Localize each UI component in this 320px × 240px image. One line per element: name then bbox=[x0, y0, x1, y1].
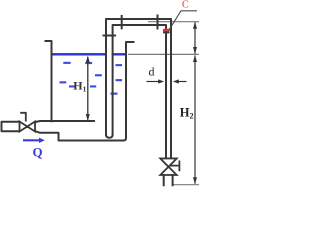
white mask of pipe bore over water bbox=[107, 53, 112, 57]
siphon pipe outer wall bbox=[106, 19, 171, 159]
extension line at water surface level bbox=[128, 53, 199, 55]
dimension H1 line bbox=[87, 57, 89, 120]
svg-text:H1: H1 bbox=[73, 78, 86, 93]
dimension d arrows bbox=[147, 81, 161, 83]
water dash 4 bbox=[95, 74, 102, 76]
water dash 7 bbox=[69, 85, 75, 87]
flange tick on top run left bbox=[121, 15, 123, 29]
dark marker under C bbox=[163, 31, 170, 33]
svg-text:H2: H2 bbox=[180, 105, 194, 120]
siphon pipe mouth U-bend bbox=[106, 135, 113, 138]
extension line at outlet level bbox=[174, 184, 200, 186]
water dash 3 bbox=[116, 64, 123, 66]
outlet valve handle bbox=[170, 161, 179, 172]
water dash 2 bbox=[85, 62, 92, 64]
tank left wall with top lip bbox=[46, 41, 52, 121]
water surface bbox=[53, 53, 126, 55]
tank right wall with top lip, floor and step to inlet bbox=[36, 42, 134, 141]
dimension line C-to-surface bbox=[194, 22, 196, 54]
flange tick on top run right bbox=[157, 15, 159, 30]
flange tick on riser bbox=[103, 35, 117, 37]
tank floor inner line (top of inlet duct) bbox=[36, 121, 95, 122]
red marker at point C bbox=[163, 29, 170, 32]
svg-text:Q: Q bbox=[33, 145, 43, 160]
water dash 1 bbox=[63, 62, 70, 64]
inlet valve V1 bbox=[20, 122, 36, 132]
flow arrow Q bbox=[23, 139, 41, 141]
water dash 8 bbox=[90, 85, 96, 87]
inlet pipe bbox=[2, 122, 20, 132]
outlet valve V2 bowtie bbox=[160, 159, 176, 176]
svg-text:C: C bbox=[182, 0, 189, 10]
dimension H2 line bbox=[194, 56, 196, 184]
water dash 9 bbox=[111, 93, 118, 95]
svg-text:d: d bbox=[149, 65, 155, 79]
leader line to C bbox=[169, 11, 197, 31]
outlet valve V2 top bar bbox=[160, 158, 176, 160]
inlet valve handle bbox=[20, 112, 26, 122]
extension line at level C bbox=[148, 21, 199, 23]
water dash 6 bbox=[116, 79, 123, 81]
water dash 5 bbox=[60, 81, 67, 83]
outlet nozzle bbox=[164, 175, 173, 185]
siphon pipe inner wall bbox=[113, 25, 166, 159]
